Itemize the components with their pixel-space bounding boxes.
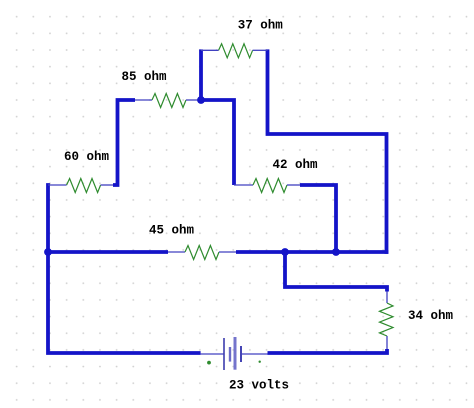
wire: resistor 45 ohm right lead <box>219 251 236 253</box>
svg-text:45 ohm: 45 ohm <box>149 224 195 238</box>
battery 23 volts plate 1 (tall) <box>223 338 225 370</box>
wire: resistor 45 ohm left lead <box>168 251 185 253</box>
resistor 42 ohm zigzag <box>253 179 287 193</box>
wire: 85-ohm row left stub and vertical down to 60-ohm row <box>113 100 135 185</box>
wire: resistor 34 ohm bottom lead <box>386 336 388 349</box>
wire: 37-ohm branch right side (down, across top-right, down to 45-ohm row) <box>268 49 387 254</box>
battery 23 volts plate 4 (short) <box>240 346 242 362</box>
wire: resistor 60 ohm left lead <box>48 184 67 186</box>
node junction dot at left of 45-ohm row <box>44 248 52 256</box>
wire: resistor 42 ohm right lead <box>287 184 300 186</box>
wire: 42-ohm right stub and vertical down to 45-ohm row <box>300 185 336 252</box>
battery 23 volts plate 2 (short) <box>229 347 231 362</box>
wire: battery right lead <box>242 353 268 355</box>
battery polarity mark right (green dot) <box>259 361 261 363</box>
wire: 45-ohm row thick right segment <box>236 250 388 254</box>
resistor 60 ohm zigzag <box>67 179 101 193</box>
node A junction dot <box>197 96 205 104</box>
battery polarity mark left (green dot) <box>207 361 211 365</box>
wire: resistor 37 ohm right lead <box>253 49 268 51</box>
wire: resistor 37 ohm left lead <box>201 49 219 51</box>
wire: bottom-right run up into 34-ohm resistor <box>268 349 388 353</box>
wire: 45-ohm row thick left segment <box>46 250 168 254</box>
wire: resistor 85 ohm right lead <box>186 99 201 101</box>
wire: resistor 60 ohm right lead <box>101 184 113 186</box>
resistor 85 ohm zigzag <box>152 94 186 108</box>
wire: resistor 42 ohm left lead <box>234 184 253 186</box>
node junction dot 45-ohm row / 34-ohm branch <box>281 248 289 256</box>
node junction dot 45-ohm row / 42-ohm branch <box>332 248 340 256</box>
svg-text:85 ohm: 85 ohm <box>122 70 168 84</box>
wire: battery left lead <box>201 353 224 355</box>
wire: 37-ohm branch left vertical <box>199 49 203 100</box>
wire: 60-ohm row left corner, left column down, bottom-left run <box>48 185 201 353</box>
svg-text:42 ohm: 42 ohm <box>273 158 319 172</box>
wire: resistor 85 ohm left lead <box>135 99 152 101</box>
wire: resistor 34 ohm top lead <box>386 292 388 304</box>
resistor 37 ohm zigzag <box>219 44 253 58</box>
wire: 34-ohm branch from 45-row down and across to right column <box>285 250 387 292</box>
svg-text:23 volts: 23 volts <box>229 379 289 393</box>
resistor 34 ohm zigzag <box>380 303 394 336</box>
svg-text:60 ohm: 60 ohm <box>64 150 110 164</box>
battery 23 volts plate 3 (tall) <box>234 337 237 370</box>
svg-text:37 ohm: 37 ohm <box>238 19 284 33</box>
svg-text:34 ohm: 34 ohm <box>408 309 454 323</box>
wire: junction A to 42-ohm branch (right then down) <box>201 100 234 185</box>
resistor 45 ohm zigzag <box>185 246 219 260</box>
